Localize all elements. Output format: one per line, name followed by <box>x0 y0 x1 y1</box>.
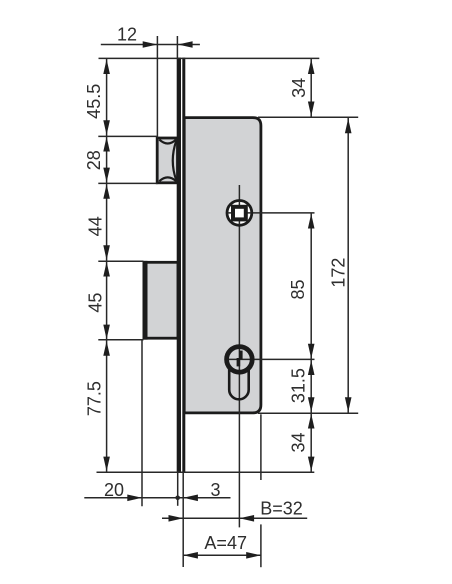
dimension 12 <box>101 24 200 48</box>
extension line deadbolt bottom <box>98 339 143 341</box>
dimension A=47 <box>183 533 261 559</box>
dimension column right <box>310 213 312 472</box>
centerline horizontal cylinder <box>227 358 315 360</box>
extension line deadbolt top <box>98 260 143 262</box>
svg-text:B=32: B=32 <box>260 499 303 519</box>
euro cylinder keyway <box>237 351 243 367</box>
deadbolt <box>145 261 178 340</box>
svg-text:85: 85 <box>288 279 308 299</box>
extension line case front vertical bottom <box>182 473 184 567</box>
dimension 31.5 <box>288 360 314 412</box>
latch roller bolt <box>157 138 177 183</box>
extension line faceplate bottom <box>97 471 315 473</box>
dimension 44 <box>86 184 110 260</box>
dimension 45.5 <box>84 59 110 135</box>
euro cylinder slot <box>229 369 249 400</box>
extension line body top right <box>258 116 358 118</box>
dimension 45 <box>86 262 110 340</box>
dimension column left <box>106 58 108 472</box>
euro cylinder ring <box>227 347 253 373</box>
svg-text:34: 34 <box>288 432 308 452</box>
extension line faceplate front vertical bottom <box>177 473 179 506</box>
extension line deadbolt front vertical <box>141 340 143 507</box>
extension line body bottom right <box>258 412 358 414</box>
lock body case <box>184 118 261 413</box>
svg-text:31.5: 31.5 <box>288 368 308 403</box>
centerline vertical through spindle and cylinder <box>238 185 240 527</box>
svg-text:45: 45 <box>86 293 106 313</box>
svg-text:172: 172 <box>328 258 348 288</box>
faceplate back bar <box>182 58 185 472</box>
extension line body back vertical seg1 <box>260 414 262 480</box>
svg-text:A=47: A=47 <box>204 533 247 553</box>
svg-text:12: 12 <box>117 24 137 44</box>
spindle hub circle <box>227 201 252 226</box>
dimension 28 <box>84 137 110 183</box>
svg-text:3: 3 <box>210 480 220 500</box>
dimension 85 <box>288 214 315 359</box>
extension line latch front vertical <box>156 36 158 138</box>
svg-text:45.5: 45.5 <box>84 84 104 119</box>
svg-text:20: 20 <box>104 480 124 500</box>
extension line faceplate top <box>99 57 320 59</box>
extension line latch bottom <box>98 182 158 184</box>
dimension 20 and 3 <box>84 480 230 501</box>
extension line body back vertical seg2 <box>260 524 262 567</box>
dimension 77.5 <box>84 341 110 471</box>
spindle square follower <box>233 207 246 220</box>
faceplate front bar <box>177 58 181 472</box>
svg-text:77.5: 77.5 <box>84 381 104 416</box>
svg-text:34: 34 <box>289 78 309 98</box>
dimension B=32 <box>162 499 307 522</box>
svg-text:44: 44 <box>86 216 106 236</box>
dimension 172 <box>328 118 351 413</box>
dimension 34 top <box>289 58 315 117</box>
centerline horizontal spindle <box>228 212 315 214</box>
extension line faceplate front vertical top <box>176 36 178 58</box>
dimension 34 bottom <box>288 414 314 472</box>
svg-text:28: 28 <box>84 150 104 170</box>
extension line latch top <box>98 135 158 137</box>
